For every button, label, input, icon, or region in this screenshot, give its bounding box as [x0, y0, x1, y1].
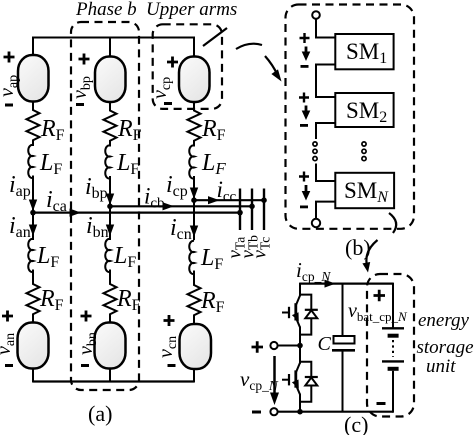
inductor LF lower a: [28, 239, 33, 272]
arm module v_bp: [95, 57, 126, 103]
wire Q2 to bottom: [299, 394, 301, 412]
arm module v_cp: [179, 57, 210, 103]
wire mid node to Q2: [299, 346, 301, 364]
terminal circle bottom: [312, 219, 320, 227]
minus sign SMN: [300, 206, 308, 209]
terminal circle c minus: [270, 408, 277, 415]
wire top bus: [33, 37, 194, 39]
callout slash a to b: [203, 28, 227, 46]
wire dots to SMN: [316, 164, 335, 182]
wire battery top: [392, 283, 394, 329]
arrow i_bp: [106, 194, 114, 206]
wire arm c to node: [193, 176, 195, 200]
callout arrowhead into b: [271, 69, 281, 81]
plus sign v_ap: [4, 52, 15, 63]
terminal line v_Ta: [239, 189, 241, 231]
terminal line v_Tc: [263, 189, 265, 231]
SMN box: [335, 173, 394, 208]
dashed box SM chain (b): [286, 5, 415, 229]
minus sign v_bn: [81, 364, 89, 367]
resistor RF upper c: [188, 102, 201, 147]
dashed box energy storage: [367, 274, 414, 417]
plus sign SM1: [300, 33, 310, 43]
plus sign v_cn: [164, 315, 175, 326]
capacitor C plate 2: [332, 349, 355, 352]
wire battery bottom: [392, 371, 394, 413]
capacitor C plate 1: [334, 336, 355, 344]
terminal circle c plus: [270, 342, 277, 349]
minus sign v_an: [5, 364, 13, 367]
ellipsis dots middle: [362, 142, 366, 161]
node mid c: [297, 343, 303, 349]
arrow i_cb: [163, 202, 175, 210]
wire bottom bus: [33, 380, 194, 382]
diode D2: [300, 362, 318, 402]
SM1 box: [335, 34, 393, 69]
plus sign v_an: [2, 311, 13, 322]
wire SM1 to SM2: [316, 65, 335, 98]
arrow i_cp_N: [325, 280, 336, 288]
inductor LF upper a: [28, 145, 33, 178]
inductor LF upper b: [105, 145, 110, 178]
wire arm cn to bottom bus: [193, 369, 195, 383]
plus sign SM2: [299, 93, 309, 103]
arrow i_ca: [70, 209, 82, 217]
wire circle to SM1: [316, 19, 335, 38]
wire stub top b: [109, 37, 111, 57]
wire igbt branch upper: [299, 283, 301, 297]
battery cell 1 long plate: [382, 327, 404, 329]
arm module v_cn: [180, 324, 212, 369]
minus sign SM1: [301, 65, 309, 68]
battery cell 2 short plate: [388, 367, 399, 371]
svg-text:Phase b: Phase b: [75, 0, 137, 20]
break curve b bottom right: [389, 213, 396, 233]
wire node a down: [32, 213, 34, 240]
transistor Q1 (IGBT): [282, 296, 300, 328]
arrow SM1 voltage: [302, 47, 311, 62]
wire bus i_cc: [194, 199, 264, 201]
diode D1: [300, 295, 318, 335]
node b junction: [107, 204, 113, 210]
minus sign v_ap: [5, 104, 13, 107]
wire SM2 down to dots: [316, 123, 335, 139]
inductor LF lower c: [189, 241, 194, 274]
node c junction: [191, 197, 197, 203]
ellipsis dots chain: [313, 142, 317, 161]
wire Q1 to mid node: [299, 327, 301, 347]
arrow i_cp: [190, 188, 198, 200]
plus sign v_cp: [167, 57, 178, 68]
arrow i_ap: [29, 200, 37, 212]
wire node c down: [193, 200, 195, 240]
resistor RF upper b: [104, 102, 117, 147]
transistor Q2 (IGBT): [282, 363, 300, 395]
wire SMN to bottom circle: [316, 202, 335, 219]
arrow i_an: [29, 225, 37, 237]
arm module v_ap: [18, 55, 49, 102]
svg-text:storage: storage: [417, 337, 474, 358]
minus sign v_cn: [168, 364, 176, 367]
wire node b down: [109, 206, 111, 240]
node bottom c: [297, 409, 303, 415]
arrow i_cc: [208, 196, 220, 204]
battery cell 2 long plate: [382, 360, 404, 362]
wire c top: [300, 283, 393, 285]
arrow SM2 voltage: [302, 106, 311, 121]
svg-text:unit: unit: [426, 356, 456, 377]
minus sign SM2: [300, 124, 308, 127]
plus sign battery: [374, 290, 386, 302]
inductor LF upper c: [189, 145, 194, 178]
plus sign v_bn: [81, 311, 92, 322]
resistor RF lower b: [104, 270, 117, 323]
battery dotted link: [392, 340, 394, 357]
wire stub top c: [193, 37, 195, 57]
dashed box Phase b: [71, 22, 139, 390]
wire arm a to node: [32, 176, 34, 213]
resistor RF upper a: [27, 102, 40, 147]
svg-text:Upper arms: Upper arms: [146, 0, 237, 20]
arm module v_an: [18, 323, 49, 369]
plus sign c input: [252, 341, 264, 353]
wire mid c: [278, 345, 300, 347]
arrow i_bn: [106, 225, 114, 237]
wire arm bn to bottom bus: [109, 369, 111, 383]
minus sign battery: [377, 402, 386, 405]
callout curve 1: [236, 44, 262, 49]
resistor RF lower c: [188, 271, 201, 325]
dashed box Upper arms: [153, 24, 222, 109]
terminal circle top: [312, 11, 320, 19]
battery cell 1 short plate: [388, 334, 399, 338]
minus sign v_cp: [164, 102, 172, 105]
minus sign c input: [252, 411, 261, 414]
wire stub top a: [32, 37, 34, 57]
inductor LF lower b: [105, 239, 110, 272]
wire bus i_ca: [33, 212, 240, 214]
terminal line v_Tb: [251, 189, 253, 231]
node v_Ta: [237, 210, 243, 216]
plus sign v_bp: [79, 54, 90, 65]
wire capacitor top: [342, 283, 344, 336]
node a junction: [30, 210, 36, 216]
wire arm an to bottom bus: [32, 369, 34, 383]
wire capacitor bottom: [342, 352, 344, 412]
SM2 box: [335, 93, 393, 127]
arrow i_cn: [190, 226, 198, 238]
node v_Tb: [249, 204, 255, 210]
arrow SMN voltage: [302, 185, 311, 201]
arm module v_bn: [95, 323, 126, 369]
svg-text:(c): (c): [344, 412, 368, 435]
callout curve 2: [265, 56, 278, 75]
wire arm b to node: [109, 176, 111, 206]
arrow v_cp_N: [270, 356, 279, 405]
svg-text:(a): (a): [88, 401, 112, 426]
wire bus i_cb: [110, 205, 252, 207]
resistor RF lower a: [27, 270, 40, 323]
svg-text:C: C: [318, 333, 332, 355]
svg-text:energy: energy: [418, 310, 470, 331]
wire c bottom: [278, 411, 393, 413]
plus sign SMN: [299, 172, 309, 182]
minus sign v_bp: [76, 103, 84, 106]
node v_Tc: [261, 197, 267, 203]
callout arrowhead into c: [362, 262, 370, 273]
callout curve b to c: [366, 240, 377, 265]
